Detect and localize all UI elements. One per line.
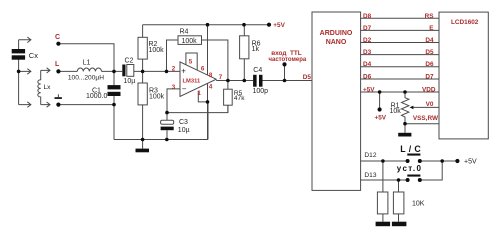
svg-text:L: L: [55, 61, 60, 68]
ground bar 10K a: [376, 222, 391, 227]
node terminal C: [56, 42, 60, 46]
node switch LC left: [406, 159, 410, 163]
svg-text:6: 6: [201, 65, 205, 72]
wire ground terminal to C1 bottom: [58, 104, 114, 106]
svg-text:вход TTL: вход TTL: [271, 50, 302, 57]
svg-text:D7: D7: [425, 74, 434, 81]
svg-text:D4: D4: [425, 37, 434, 44]
svg-text:+: +: [181, 67, 186, 76]
node TTL terminal: [282, 62, 286, 66]
node output R4 R5: [226, 79, 230, 83]
svg-text:47k: 47k: [234, 95, 245, 102]
resistor R3 body: [138, 83, 147, 105]
wire switch set0 right: [420, 161, 442, 180]
svg-text:D6: D6: [363, 74, 372, 81]
svg-text:1k: 1k: [252, 46, 260, 53]
resistor R5 leads: [227, 81, 229, 113]
svg-text:LM311: LM311: [183, 78, 201, 84]
wire probe arrow bottom: [19, 102, 31, 108]
wire row D4-D6: [360, 66, 439, 68]
svg-text:D5: D5: [303, 74, 312, 81]
node +5V VDD left: [378, 90, 382, 94]
resistor 10K b leads: [398, 180, 400, 222]
resistor R4 body: [178, 36, 202, 45]
node R2 R3 divider: [141, 70, 145, 74]
svg-text:D2: D2: [363, 37, 372, 44]
svg-text:100k: 100k: [149, 93, 165, 100]
wire pin8 supply: [207, 25, 209, 76]
wire op-amp output: [216, 80, 253, 82]
wire pin1 pin4 ground: [198, 84, 207, 140]
capacitor C1 leads: [113, 71, 115, 139]
ground rail bottom: [114, 102, 208, 140]
wire +5V rail top: [143, 24, 269, 26]
node inverting C3: [165, 111, 169, 115]
ground terminal symbol: [57, 94, 59, 97]
svg-text:+5V: +5V: [464, 159, 477, 166]
svg-text:D3: D3: [363, 49, 372, 56]
node R6 supply rail: [242, 23, 246, 27]
resistor R6 leads: [243, 25, 245, 81]
svg-text:10µ: 10µ: [124, 78, 136, 85]
node output R6: [243, 79, 247, 83]
node switch set0 right: [418, 178, 422, 182]
svg-text:100k: 100k: [149, 47, 165, 54]
ground bar mid rail: [136, 149, 150, 153]
node 10K a top: [381, 159, 385, 163]
resistor R3 leads: [142, 71, 144, 139]
svg-text:RS: RS: [425, 13, 435, 20]
wire C4 to arduino D5: [263, 80, 312, 82]
svg-text:D7: D7: [363, 25, 372, 32]
svg-text:−: −: [182, 84, 187, 93]
svg-text:Cx: Cx: [29, 51, 38, 60]
svg-text:частотомера: частотомера: [269, 57, 307, 63]
wire row +5V-VDD: [360, 91, 439, 93]
wire inverting node: [167, 105, 228, 112]
svg-text:3: 3: [172, 84, 176, 91]
wire VSS RW row: [405, 123, 439, 125]
node pin1 pin4: [206, 100, 210, 104]
node switch set0 left: [406, 178, 410, 182]
wire probe arrow top: [19, 37, 31, 43]
node TTL stub base: [283, 79, 287, 83]
svg-text:100p: 100p: [253, 88, 269, 95]
wire pin3 input: [167, 89, 180, 113]
ground R1 stub: [404, 124, 406, 133]
capacitor Cx plates: [12, 49, 25, 60]
svg-text:Lx: Lx: [44, 84, 52, 91]
svg-text:D12: D12: [364, 152, 376, 159]
wire row D8-RS: [360, 17, 439, 19]
node +5V supply terminal: [378, 107, 382, 111]
resistor R6 body: [240, 36, 249, 59]
svg-text:1: 1: [197, 90, 201, 97]
resistor R4 leads: [167, 40, 228, 81]
opamp U1 LM311 triangle: [180, 62, 216, 97]
ground terminal bar: [55, 97, 62, 99]
wire terminal C to LC node: [58, 44, 114, 72]
wire row D7-E: [360, 29, 439, 31]
svg-text:C2: C2: [125, 58, 134, 65]
potentiometer R1 wiper arrowhead: [410, 106, 414, 110]
node R1 bottom: [403, 122, 407, 126]
node pin2 R4: [165, 70, 169, 74]
resistor 10K a leads: [382, 161, 384, 222]
wire probe bus vertical: [18, 40, 20, 105]
node 10K b top: [397, 178, 401, 182]
wire row D2-D4: [360, 42, 439, 44]
svg-text:5: 5: [189, 58, 193, 65]
svg-text:ARDUINO: ARDUINO: [320, 30, 353, 37]
svg-text:100...200µH: 100...200µH: [68, 74, 104, 81]
svg-text:VDD: VDD: [422, 87, 436, 94]
capacitor C1 plates: [108, 85, 121, 89]
svg-text:C: C: [55, 34, 60, 41]
svg-text:NANO: NANO: [326, 39, 347, 46]
node terminal GND: [56, 103, 60, 107]
wire D12 row: [360, 160, 407, 162]
svg-text:LCD1602: LCD1602: [451, 19, 479, 26]
svg-text:L/C: L/C: [400, 144, 424, 154]
capacitor C3 leads: [166, 113, 168, 140]
node terminal L: [56, 69, 60, 73]
svg-text:10µ: 10µ: [178, 127, 190, 134]
svg-text:C3: C3: [179, 119, 188, 126]
svg-text:D4: D4: [363, 61, 372, 68]
svg-text:+5V: +5V: [363, 87, 375, 94]
node LC tank: [112, 70, 116, 74]
wire row D3-D5: [360, 54, 439, 56]
node R3 ground rail: [141, 138, 145, 142]
capacitor C3 negative plate: [161, 127, 174, 131]
capacitor C4 plates: [253, 75, 257, 87]
switch set0 button bar: [407, 175, 420, 177]
wire Lx arrow bottom: [41, 102, 50, 107]
svg-text:D8: D8: [363, 13, 372, 20]
svg-text:100k: 100k: [182, 38, 198, 45]
svg-text:2: 2: [172, 65, 176, 72]
svg-text:D13: D13: [364, 172, 376, 179]
potentiometer R1 leads and zigzag: [402, 92, 409, 124]
resistor R2 leads: [142, 25, 144, 72]
node +5V terminal top: [267, 23, 271, 27]
node switch LC right: [418, 159, 422, 163]
wire Lx arrow top: [41, 68, 50, 73]
LCD1602 box: [439, 12, 488, 139]
svg-text:+5V: +5V: [375, 115, 387, 122]
inductor Lx coil: [38, 70, 41, 104]
wire switch LC to +5V: [420, 160, 458, 162]
ground symbol mid: [142, 140, 144, 149]
svg-text:7: 7: [219, 74, 223, 81]
svg-text:R4: R4: [180, 28, 189, 35]
node switches join: [440, 159, 444, 163]
wire row D6-D7: [360, 78, 439, 80]
svg-text:C4: C4: [253, 67, 262, 74]
svg-text:+5V: +5V: [273, 22, 285, 29]
svg-text:D5: D5: [425, 49, 434, 56]
inductor L1: [77, 68, 101, 71]
capacitor C2 positive box: [127, 65, 134, 77]
capacitor C3 positive plate: [161, 120, 174, 124]
wire +5V supply stub: [379, 92, 381, 110]
wire probe arrow mid: [19, 69, 31, 75]
svg-text:4: 4: [209, 83, 213, 90]
wire node L to L1: [58, 70, 77, 72]
svg-text:10k: 10k: [390, 108, 402, 115]
ground bar 10K b: [392, 222, 407, 227]
potentiometer R1 wiper wire V0: [411, 106, 439, 108]
switch L/C button bar: [407, 154, 420, 156]
resistor R5 body: [224, 89, 233, 105]
wire TTL output stub: [284, 64, 286, 80]
svg-text:1000.0: 1000.0: [86, 93, 108, 100]
capacitor C2 negative plate: [122, 65, 125, 77]
svg-text:L1: L1: [83, 60, 91, 67]
node C3 ground rail: [165, 138, 169, 142]
node probe bus junction: [17, 70, 21, 74]
node R1 top: [403, 90, 407, 94]
svg-text:V0: V0: [426, 101, 434, 108]
svg-text:уст.0: уст.0: [397, 164, 423, 173]
node pin8 supply rail: [206, 23, 210, 27]
resistor 10K a body: [377, 192, 388, 214]
svg-text:E: E: [429, 25, 434, 32]
ground bar R1: [398, 133, 411, 137]
node +5V terminal bottom: [455, 159, 459, 163]
svg-text:VSS,RW: VSS,RW: [413, 115, 439, 122]
arduino nano box: [312, 12, 361, 190]
wire L1 to C2: [102, 70, 123, 72]
opamp balance pins 5-6 bracket: [186, 53, 197, 70]
svg-text:D6: D6: [425, 61, 434, 68]
resistor R2 body: [138, 37, 147, 59]
svg-text:8: 8: [209, 72, 213, 79]
wire D13 row: [360, 179, 407, 181]
node C1 ground: [112, 103, 116, 107]
wire C2 to op-amp pin2: [134, 70, 180, 72]
svg-text:10K: 10K: [412, 201, 425, 208]
resistor 10K b body: [393, 192, 404, 214]
